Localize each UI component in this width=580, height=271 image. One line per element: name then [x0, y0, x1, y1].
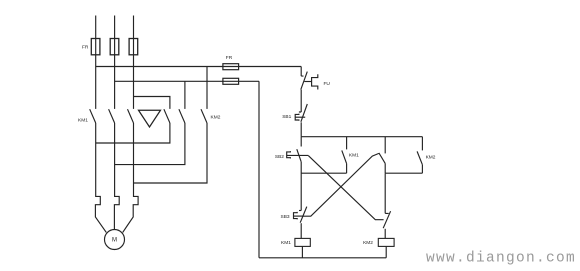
- svg-text:KM1: KM1: [78, 118, 88, 124]
- wire bracket L3 to KM2 contact 1: [134, 97, 170, 109]
- motor M circle: [105, 230, 125, 250]
- wire crossover KM2-3 to phase 3: [134, 123, 208, 183]
- svg-text:SB3: SB3: [281, 214, 290, 220]
- contactor KM2 main contact 2: [179, 109, 185, 123]
- fuse FR pole 2: [110, 39, 119, 55]
- delta symbol triangle: [139, 110, 161, 127]
- wire left mid rail: [301, 172, 346, 174]
- wire motor lead 1 with FR heater jog: [95, 123, 106, 232]
- wire crossover KM2-2 to phase 2: [115, 123, 185, 165]
- wire SB3-NO bottom: [384, 163, 386, 173]
- contactor KM2 aux contact: [421, 137, 423, 151]
- fuse FR pole 1: [91, 39, 100, 55]
- wire SB2-NC to KM2 coil: [384, 229, 386, 239]
- push button SB1 cap: [295, 114, 299, 121]
- wire control line 2: [115, 80, 259, 82]
- wire KM2 contact 2 top: [184, 81, 186, 109]
- contactor KM1 main contact 2: [109, 109, 115, 123]
- svg-text:FR: FR: [82, 45, 89, 51]
- push button SB3 fixed terminal: [299, 210, 301, 212]
- contactor KM2 main contact 1: [164, 109, 170, 123]
- push button SB2 cap: [287, 151, 291, 158]
- contactor KM2 main contact 3: [201, 109, 207, 123]
- svg-text:www.diangon.com: www.diangon.com: [426, 251, 576, 267]
- wire to SB2-NC: [385, 173, 389, 213]
- wire top rail: [301, 136, 422, 138]
- contactor KM1 aux contact stub: [346, 137, 348, 150]
- wire SB2 top stub: [300, 137, 302, 147]
- push button SB2-NC blade: [383, 211, 390, 228]
- svg-text:SB2: SB2: [275, 154, 284, 160]
- wire phase L2 vertical: [114, 16, 116, 109]
- wire phase L1 vertical: [95, 16, 97, 109]
- wire KM1 aux bottom: [346, 164, 348, 174]
- wire KM2 contact 3 top: [206, 67, 208, 109]
- push button SB2 plunger and link tail: [287, 154, 309, 156]
- fuse FR pole 3: [129, 39, 138, 55]
- contact SB3-NO blade: [379, 153, 385, 164]
- wire KM2 aux bottom: [421, 165, 423, 174]
- contact SB3-NO stub: [384, 137, 386, 154]
- fuse-switch FU tap: [304, 81, 311, 83]
- wire motor lead 2 with FR heater jog: [114, 123, 119, 230]
- fuse FR control pole 2: [223, 78, 239, 84]
- wire right mid rail: [385, 172, 422, 174]
- contactor KM1 aux blade: [342, 150, 347, 163]
- contactor KM1 main contact 3: [128, 109, 134, 123]
- svg-text:M: M: [112, 237, 117, 243]
- wire SB3 to KM1 coil: [300, 223, 302, 238]
- svg-text:FR: FR: [226, 55, 233, 61]
- svg-text:KM2: KM2: [211, 115, 221, 121]
- push button SB3 plunger: [294, 215, 304, 217]
- contactor KM2 aux blade: [417, 151, 422, 164]
- wire left return vertical: [258, 81, 260, 257]
- push button SB3 cap: [294, 212, 298, 220]
- push button SB2 blade: [297, 149, 301, 162]
- svg-text:SB1: SB1: [282, 114, 291, 120]
- contactor KM1 main contact 1: [90, 109, 96, 123]
- push button SB1 blade: [301, 104, 307, 122]
- fuse-switch FU clip: [312, 74, 318, 89]
- wire control main drop + FU fixed: [301, 67, 303, 77]
- fuse FR control pole 1: [223, 64, 239, 70]
- coil KM2: [378, 238, 394, 246]
- svg-text:KM2: KM2: [363, 240, 373, 246]
- wire KM2 coil to bottom rail: [385, 246, 387, 257]
- wire SB2 bottom to SB3: [300, 162, 302, 211]
- wire phase L3 vertical: [133, 16, 135, 109]
- svg-text:KM1: KM1: [281, 240, 291, 246]
- fuse-switch FU blade: [301, 72, 308, 90]
- svg-text:FU: FU: [324, 81, 331, 87]
- wire KM1 coil to bottom rail: [301, 246, 303, 257]
- wire bottom rail: [259, 257, 386, 259]
- mechanical link SB2 to KM1-NC: [308, 156, 383, 220]
- coil KM1: [295, 238, 310, 246]
- mechanical link SB3 to SB3-NO: [303, 153, 379, 216]
- wire FU to SB1: [299, 90, 301, 112]
- wire crossover KM2-1 to phase 1: [96, 123, 170, 143]
- svg-text:KM1: KM1: [349, 152, 359, 158]
- push button SB3 blade: [300, 207, 307, 223]
- wire SB1 to rail: [300, 122, 302, 136]
- svg-text:KM2: KM2: [426, 155, 436, 161]
- wire control line 1: [96, 66, 302, 68]
- push button SB1 plunger: [295, 116, 305, 118]
- wire motor lead 3 with FR heater jog: [123, 123, 138, 232]
